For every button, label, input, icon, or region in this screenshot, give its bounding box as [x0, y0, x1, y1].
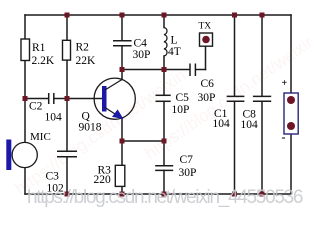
wire base junction to C3	[66, 99, 68, 152]
wire R2 top	[66, 15, 68, 40]
node emitter right	[162, 139, 167, 144]
svg-text:R1: R1	[32, 42, 46, 54]
wire battery top lead	[290, 15, 292, 93]
wire bottom rail	[25, 193, 291, 195]
capacitor C6	[190, 64, 215, 105]
svg-text:30P: 30P	[179, 167, 197, 179]
resistor R3	[94, 165, 125, 187]
wire C3 to bottom rail	[66, 157, 68, 194]
wire L top lead	[163, 15, 165, 28]
capacitor C3	[46, 151, 78, 194]
svg-text:-: -	[282, 130, 286, 144]
svg-text:+: +	[282, 78, 288, 89]
node top rail C8	[260, 13, 265, 18]
svg-text:104: 104	[45, 112, 63, 124]
wire emitter node line	[122, 140, 164, 142]
svg-text:30P: 30P	[133, 49, 151, 61]
svg-text:L: L	[171, 34, 178, 46]
wire R3 bottom lead	[121, 186, 123, 194]
svg-text:C3: C3	[46, 171, 60, 183]
wire C5 bottom lead	[163, 102, 165, 142]
svg-text:R2: R2	[76, 42, 90, 54]
svg-text:C6: C6	[201, 78, 215, 90]
wire C8 top lead	[261, 15, 263, 96]
node top rail L	[162, 13, 167, 18]
wire C2 right lead to base junction	[54, 98, 67, 100]
wire C7 bottom lead	[163, 171, 165, 195]
node bottom rail C3	[65, 192, 70, 197]
node base	[65, 96, 70, 101]
node top rail C1	[232, 13, 237, 18]
wire C5 top lead	[163, 70, 165, 96]
wire C4 bottom lead	[121, 46, 123, 70]
watermark diagonal pink	[11, 31, 319, 199]
battery BT1	[282, 78, 299, 144]
svg-text:TX: TX	[199, 22, 212, 32]
svg-text:22K: 22K	[76, 55, 97, 67]
svg-text:https://blog.csdn.net/weixin_4: https://blog.csdn.net/weixin_44550536	[27, 187, 303, 208]
wire C4 top lead	[121, 15, 123, 41]
wire L bottom lead	[163, 56, 165, 70]
svg-text:10P: 10P	[172, 104, 190, 116]
node bottom rail C1	[232, 192, 237, 197]
resistor R2	[63, 40, 97, 67]
capacitor C4	[113, 38, 150, 62]
node top rail C4	[120, 13, 125, 18]
svg-text:2.2K: 2.2K	[32, 55, 55, 67]
svg-text:C5: C5	[176, 92, 190, 104]
resistor R1	[21, 39, 55, 67]
node mic C2	[23, 96, 28, 101]
svg-text:MIC: MIC	[30, 131, 51, 143]
node bottom rail R3	[120, 192, 125, 197]
svg-text:104: 104	[213, 118, 231, 130]
svg-text:220: 220	[94, 174, 112, 186]
capacitor C7	[155, 154, 196, 179]
transistor Q1 9018	[79, 78, 136, 134]
node collector right	[162, 67, 167, 72]
wire collector	[121, 70, 123, 80]
svg-text:Q: Q	[82, 111, 91, 123]
svg-text:30P: 30P	[198, 92, 216, 104]
capacitor C2	[29, 93, 62, 124]
svg-text:C4: C4	[134, 38, 148, 50]
capacitor C5	[156, 92, 190, 116]
wire left column upper	[24, 15, 26, 39]
wire C1 bottom lead	[234, 101, 236, 194]
capacitor C8	[241, 96, 272, 131]
wire emitter	[121, 119, 123, 142]
node top rail R2	[65, 13, 70, 18]
svg-text:C7: C7	[180, 154, 194, 166]
wire battery bottom lead	[290, 134, 292, 194]
wire R3 top lead	[121, 141, 123, 165]
wire top rail	[25, 14, 291, 16]
svg-text:104: 104	[241, 119, 259, 131]
wire TX lead	[205, 46, 207, 69]
wire C8 bottom lead	[261, 101, 263, 194]
wire MIC to bottom rail	[24, 168, 26, 195]
inductor L 4T	[164, 28, 181, 58]
wire base lead	[67, 98, 102, 100]
wire C6 right lead	[196, 69, 206, 71]
node emitter left	[120, 139, 125, 144]
svg-text:4T: 4T	[168, 46, 181, 58]
wire C2 left lead	[25, 98, 48, 100]
node collector left	[120, 67, 125, 72]
wire junction to MIC	[24, 99, 26, 143]
wire collector node line	[122, 69, 164, 71]
svg-text:C2: C2	[29, 101, 43, 113]
svg-text:9018: 9018	[79, 122, 102, 134]
wire C1 top lead	[234, 15, 236, 96]
wire R2 bottom to base junction	[66, 60, 68, 98]
wire C6 left lead	[164, 69, 189, 71]
capacitor C1	[213, 96, 245, 130]
microphone MIC	[6, 131, 50, 170]
node bottom rail C7	[162, 192, 167, 197]
wire R1 to C2 junction	[24, 61, 26, 99]
node bottom rail C8	[260, 192, 265, 197]
antenna TX	[199, 22, 213, 47]
wire C7 top lead	[163, 141, 165, 166]
